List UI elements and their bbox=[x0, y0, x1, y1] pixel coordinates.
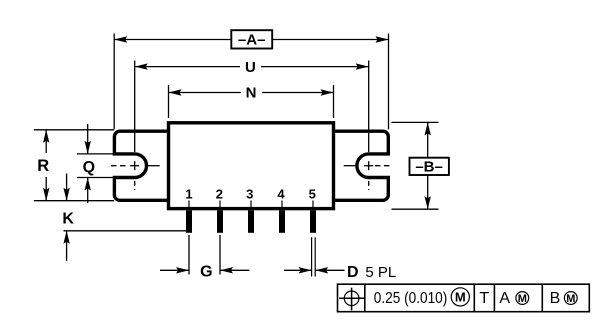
dim G arrows bbox=[160, 269, 249, 271]
dim K arrows bbox=[66, 174, 68, 261]
svg-text:5 PL: 5 PL bbox=[365, 264, 396, 281]
M modifier circle 3 bbox=[564, 292, 577, 305]
mounting hole centerline left bbox=[111, 161, 160, 190]
svg-text:–A–: –A– bbox=[238, 32, 266, 49]
package flange right bbox=[334, 131, 389, 200]
svg-text:T: T bbox=[479, 290, 489, 307]
svg-text:B: B bbox=[550, 290, 561, 307]
pin 3 lead bbox=[248, 210, 254, 233]
svg-text:Q: Q bbox=[83, 159, 95, 176]
pin 2 lead bbox=[217, 210, 223, 233]
dim G pin centerlines bbox=[189, 235, 220, 275]
dim R extension lines bbox=[34, 130, 114, 201]
dim Q extension lines bbox=[77, 154, 114, 178]
svg-text:A: A bbox=[499, 290, 510, 307]
dim A extension lines bbox=[114, 34, 388, 130]
dim N line bbox=[169, 92, 334, 94]
svg-text:–B–: –B– bbox=[415, 159, 443, 176]
svg-text:G: G bbox=[200, 263, 212, 280]
true position symbol bbox=[339, 288, 364, 311]
package body (cap) bbox=[169, 123, 334, 209]
pin number leaders bbox=[189, 201, 313, 208]
dim B arrows bbox=[427, 122, 429, 209]
svg-text:5: 5 bbox=[309, 186, 316, 201]
svg-text:0.25 (0.010): 0.25 (0.010) bbox=[374, 290, 448, 307]
dim D arrows bbox=[284, 269, 345, 271]
pin 4 lead bbox=[279, 210, 285, 233]
svg-text:N: N bbox=[246, 85, 257, 102]
dim Q arrows bbox=[87, 124, 89, 203]
dim K extension line bbox=[64, 230, 187, 232]
datum B label box bbox=[410, 158, 449, 175]
svg-text:1: 1 bbox=[185, 186, 192, 201]
pin 1 lead bbox=[186, 210, 192, 233]
svg-text:M: M bbox=[518, 293, 527, 305]
svg-text:3: 3 bbox=[246, 186, 253, 201]
dim D pin edge lines bbox=[312, 237, 316, 276]
mounting hole centerline right bbox=[344, 161, 393, 190]
svg-text:M: M bbox=[455, 290, 466, 305]
svg-text:U: U bbox=[245, 59, 256, 76]
M modifier circle 2 bbox=[516, 292, 529, 305]
datum A label box bbox=[231, 30, 272, 48]
M modifier circle 1 bbox=[451, 288, 469, 306]
dim A line bbox=[114, 39, 388, 41]
dim R arrows bbox=[45, 130, 47, 201]
svg-text:K: K bbox=[62, 210, 74, 227]
dim U line bbox=[135, 66, 369, 68]
dim U extension lines bbox=[135, 61, 369, 153]
svg-text:D: D bbox=[347, 264, 359, 281]
feature control frame bbox=[338, 284, 590, 312]
package flange left bbox=[114, 131, 168, 200]
dim B extension lines bbox=[392, 122, 439, 209]
dim N extension lines bbox=[169, 85, 334, 118]
svg-text:4: 4 bbox=[277, 186, 285, 201]
pin 5 lead bbox=[310, 210, 316, 233]
svg-text:2: 2 bbox=[216, 186, 223, 201]
svg-text:M: M bbox=[566, 293, 575, 305]
svg-text:R: R bbox=[37, 157, 49, 175]
